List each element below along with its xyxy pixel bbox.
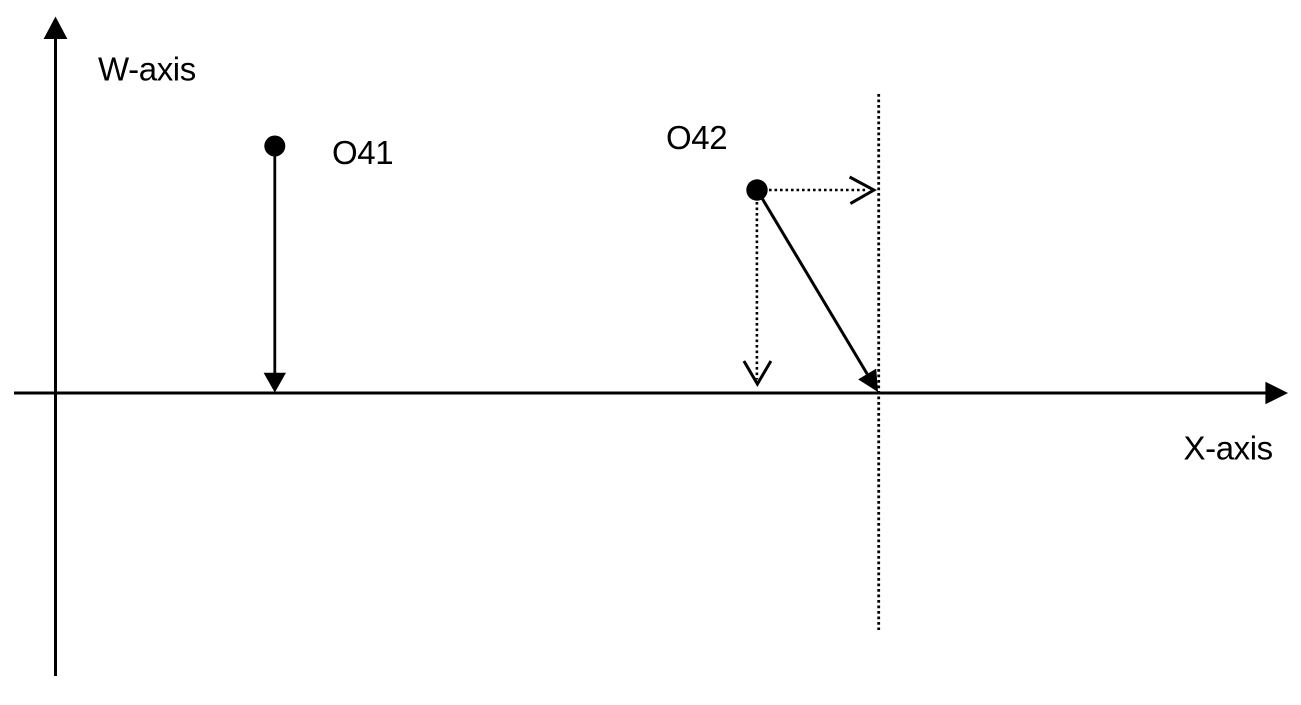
X axis arrowhead [1265,382,1288,405]
svg-text:X-axis: X-axis [1184,430,1273,467]
svg-text:O42: O42 [666,119,727,156]
X axis (horizontal axis line) [14,392,1267,395]
point O41 (dot) [264,136,285,157]
O42 diagonal filled arrowhead [858,369,878,392]
svg-text:O41: O41 [332,134,393,171]
O41 drop arrowhead (filled) [264,373,286,393]
W axis (vertical axis line) [54,37,57,676]
O41 drop arrow shaft (solid vertical wire) [273,150,276,374]
O42 dotted horizontal arrow shaft [769,189,867,192]
point O42 (dot) [746,179,767,200]
W axis arrowhead [44,17,68,40]
O42 diagonal solid arrow shaft [758,192,867,375]
O42 horizontal open chevron arrowhead [850,177,874,204]
long vertical dotted reference line [877,94,880,630]
O42 dotted vertical arrow shaft [756,202,759,380]
O42 vertical open chevron arrowhead [744,361,771,384]
svg-text:W-axis: W-axis [98,51,196,88]
